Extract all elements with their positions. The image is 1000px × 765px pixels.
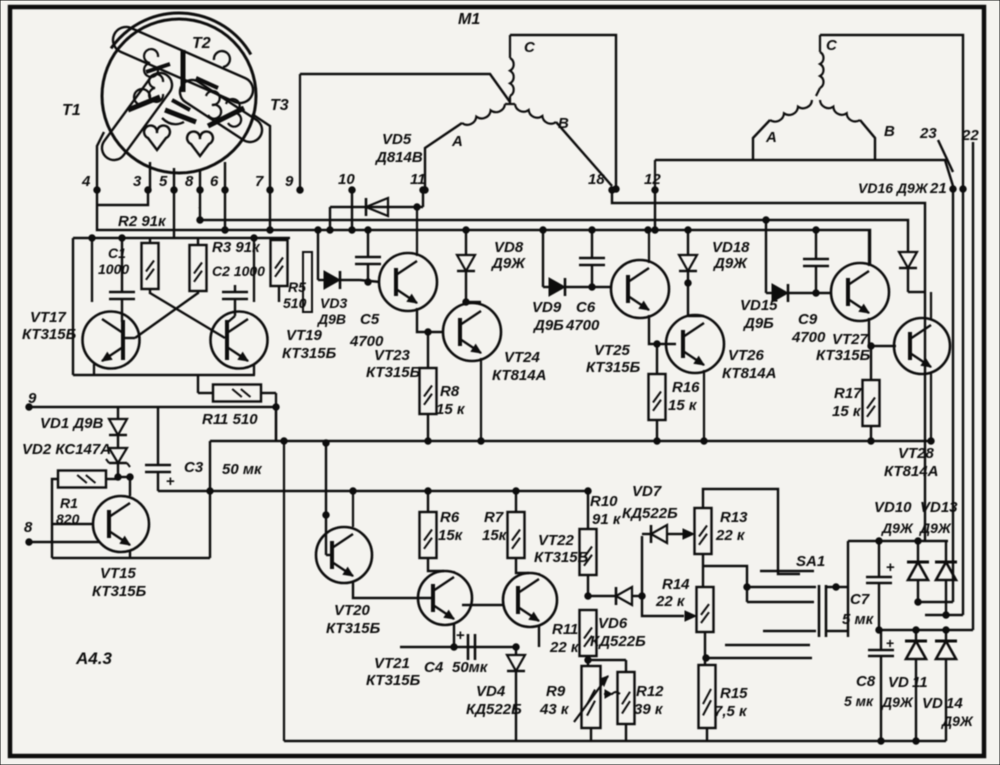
svg-text:КТ814А: КТ814А <box>884 463 938 480</box>
svg-text:VD7: VD7 <box>632 483 662 500</box>
svg-text:M1: M1 <box>458 11 480 28</box>
svg-text:VT24: VT24 <box>504 349 541 366</box>
svg-text:10: 10 <box>338 171 355 188</box>
svg-text:Д9Ж: Д9Ж <box>919 520 952 536</box>
svg-text:SA1: SA1 <box>796 553 825 570</box>
svg-text:+: + <box>456 627 465 644</box>
svg-text:8: 8 <box>185 173 194 190</box>
svg-text:VT21: VT21 <box>374 655 410 672</box>
svg-text:15 к: 15 к <box>436 401 466 418</box>
svg-text:B: B <box>884 123 895 140</box>
svg-text:КТ315Б: КТ315Б <box>92 583 147 600</box>
svg-text:VD15: VD15 <box>740 297 778 314</box>
svg-text:+: + <box>886 559 895 576</box>
svg-text:22: 22 <box>961 127 979 144</box>
svg-text:VD16 Д9Ж: VD16 Д9Ж <box>858 180 929 196</box>
svg-text:Д9Ж: Д9Ж <box>881 520 914 536</box>
svg-text:КТ315Б: КТ315Б <box>282 345 337 362</box>
svg-text:B: B <box>558 115 569 132</box>
svg-text:R15: R15 <box>720 685 748 702</box>
svg-text:21: 21 <box>929 180 947 197</box>
svg-text:A: A <box>765 129 777 146</box>
svg-text:14: 14 <box>946 695 963 712</box>
svg-text:23: 23 <box>919 125 937 142</box>
svg-text:5: 5 <box>159 173 168 190</box>
svg-text:C3: C3 <box>184 459 204 476</box>
svg-text:VT20: VT20 <box>334 602 371 619</box>
svg-text:C2 1000: C2 1000 <box>212 263 265 279</box>
svg-text:50мк: 50мк <box>452 659 489 676</box>
svg-text:КТ315Б: КТ315Б <box>586 359 641 376</box>
svg-text:A: A <box>451 133 463 150</box>
svg-text:VD4: VD4 <box>476 683 506 700</box>
svg-text:C: C <box>826 37 838 54</box>
svg-text:15 к: 15 к <box>668 397 698 414</box>
svg-text:VD2 КС147А: VD2 КС147А <box>22 441 111 458</box>
svg-text:VD3: VD3 <box>320 295 347 311</box>
svg-text:C8: C8 <box>856 673 876 690</box>
svg-text:Д9Ж: Д9Ж <box>881 694 914 710</box>
svg-text:9: 9 <box>285 173 294 190</box>
svg-text:КД522Б: КД522Б <box>622 505 678 522</box>
svg-text:3: 3 <box>133 173 142 190</box>
svg-text:15к: 15к <box>482 527 508 544</box>
svg-text:7: 7 <box>255 173 264 190</box>
svg-text:КД522Б: КД522Б <box>466 701 522 718</box>
svg-text:Д9Ж: Д9Ж <box>941 713 974 729</box>
svg-text:Д9Ж: Д9Ж <box>490 255 526 272</box>
svg-text:А4.3: А4.3 <box>75 649 112 668</box>
svg-text:R13: R13 <box>720 509 748 526</box>
svg-text:КТ315Б: КТ315Б <box>366 364 421 381</box>
svg-text:820: 820 <box>56 511 80 527</box>
svg-text:R17: R17 <box>834 385 862 402</box>
svg-text:R7: R7 <box>484 509 504 526</box>
svg-text:VD6: VD6 <box>598 615 628 632</box>
svg-text:КТ814А: КТ814А <box>492 367 546 384</box>
svg-text:VD10: VD10 <box>874 499 912 516</box>
svg-text:4: 4 <box>81 173 91 190</box>
svg-text:4700: 4700 <box>791 329 826 346</box>
svg-text:VD5: VD5 <box>382 131 412 148</box>
svg-text:КТ315Б: КТ315Б <box>366 672 421 689</box>
svg-text:VD9: VD9 <box>532 299 562 316</box>
svg-text:R1: R1 <box>60 495 78 511</box>
svg-text:Д9В: Д9В <box>317 311 346 327</box>
svg-text:+: + <box>166 473 175 490</box>
svg-text:Д9Б: Д9Б <box>742 315 774 332</box>
svg-text:КТ315Б: КТ315Б <box>816 347 871 364</box>
svg-text:R6: R6 <box>440 509 460 526</box>
svg-text:T1: T1 <box>62 102 81 119</box>
svg-text:VT25: VT25 <box>594 342 631 359</box>
svg-text:43 к: 43 к <box>539 701 570 718</box>
svg-text:91 к: 91 к <box>592 511 622 528</box>
svg-text:5 мк: 5 мк <box>842 611 875 628</box>
svg-text:VD18: VD18 <box>712 239 750 256</box>
svg-text:50 мк: 50 мк <box>222 461 263 478</box>
svg-text:22 к: 22 к <box>549 639 580 656</box>
svg-text:39 к: 39 к <box>634 701 664 718</box>
svg-text:VD8: VD8 <box>494 239 524 256</box>
svg-text:15к: 15к <box>438 527 464 544</box>
svg-text:VT28: VT28 <box>898 445 935 462</box>
svg-text:КТ315Б: КТ315Б <box>326 620 381 637</box>
svg-text:7,5 к: 7,5 к <box>714 703 748 720</box>
svg-text:R9: R9 <box>546 683 566 700</box>
svg-text:C4: C4 <box>424 659 444 676</box>
svg-text:6: 6 <box>210 173 219 190</box>
svg-text:VT19: VT19 <box>286 327 323 344</box>
svg-text:T2: T2 <box>192 35 211 52</box>
svg-text:R11 510: R11 510 <box>202 411 258 428</box>
svg-text:R14: R14 <box>662 576 690 593</box>
svg-text:R2 91к: R2 91к <box>118 213 167 230</box>
svg-text:Д814В: Д814В <box>374 149 423 166</box>
svg-text:18: 18 <box>588 171 605 188</box>
svg-text:11: 11 <box>912 674 928 691</box>
svg-text:VT17: VT17 <box>30 309 67 326</box>
svg-text:C9: C9 <box>798 311 818 328</box>
svg-text:Д9Ж: Д9Ж <box>712 255 748 272</box>
svg-text:22 к: 22 к <box>715 527 746 544</box>
svg-text:C7: C7 <box>850 591 870 608</box>
svg-text:11: 11 <box>410 171 426 188</box>
svg-text:R8: R8 <box>440 383 460 400</box>
svg-text:15 к: 15 к <box>832 403 862 420</box>
svg-text:VD13: VD13 <box>920 499 958 516</box>
svg-text:VD1 Д9В: VD1 Д9В <box>40 415 104 432</box>
svg-text:VT15: VT15 <box>100 565 137 582</box>
svg-text:C6: C6 <box>576 299 596 316</box>
svg-text:КТ814А: КТ814А <box>722 365 776 382</box>
svg-text:22 к: 22 к <box>655 593 686 610</box>
svg-text:VD: VD <box>888 674 909 691</box>
svg-text:C: C <box>524 39 536 56</box>
svg-text:R10: R10 <box>590 493 618 510</box>
svg-text:12: 12 <box>644 171 661 188</box>
svg-text:КТ315Б: КТ315Б <box>22 326 77 343</box>
svg-text:Д9Б: Д9Б <box>532 317 564 334</box>
svg-text:T3: T3 <box>270 97 289 114</box>
svg-text:КД522Б: КД522Б <box>590 633 646 650</box>
svg-text:R12: R12 <box>636 683 664 700</box>
svg-text:C5: C5 <box>360 311 380 328</box>
svg-text:R11: R11 <box>552 621 578 638</box>
svg-text:VT27: VT27 <box>832 331 869 348</box>
svg-text:8: 8 <box>24 519 33 536</box>
svg-text:VT23: VT23 <box>374 347 411 364</box>
svg-text:R16: R16 <box>672 379 700 396</box>
svg-text:VT26: VT26 <box>728 347 765 364</box>
svg-text:1000: 1000 <box>98 261 129 277</box>
svg-text:VD: VD <box>922 695 943 712</box>
svg-text:C1: C1 <box>108 245 126 261</box>
svg-text:5 мк: 5 мк <box>844 693 874 709</box>
svg-text:4700: 4700 <box>565 317 600 334</box>
svg-text:VT22: VT22 <box>538 532 575 549</box>
svg-text:+: + <box>886 635 894 651</box>
